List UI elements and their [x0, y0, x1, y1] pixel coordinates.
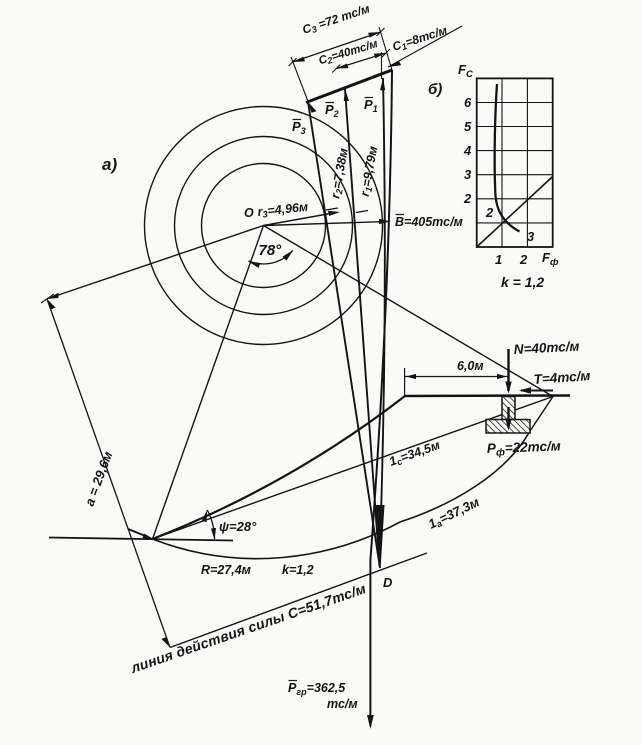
svg-text:1: 1 — [495, 252, 502, 267]
svg-text:а): а) — [102, 155, 117, 174]
svg-text:2: 2 — [485, 205, 494, 220]
svg-text:б): б) — [428, 81, 442, 98]
svg-text:6: 6 — [464, 95, 472, 110]
svg-text:78°: 78° — [259, 242, 283, 259]
svg-text:5: 5 — [464, 119, 472, 134]
svg-text:O: O — [244, 206, 254, 220]
svg-text:тс/м: тс/м — [327, 697, 358, 711]
svg-text:B=405тс/м: B=405тс/м — [395, 215, 463, 229]
svg-text:3: 3 — [464, 167, 472, 182]
svg-text:ψ=28°: ψ=28° — [219, 519, 257, 534]
svg-text:3: 3 — [527, 229, 535, 244]
svg-text:k=1,2: k=1,2 — [282, 563, 314, 577]
svg-text:k = 1,2: k = 1,2 — [501, 274, 544, 290]
svg-text:D: D — [383, 575, 393, 590]
svg-text:2: 2 — [463, 191, 472, 206]
svg-text:R=27,4м: R=27,4м — [201, 563, 251, 577]
svg-text:2: 2 — [519, 252, 528, 267]
svg-text:6,0м: 6,0м — [457, 359, 484, 373]
svg-text:4: 4 — [463, 143, 472, 158]
